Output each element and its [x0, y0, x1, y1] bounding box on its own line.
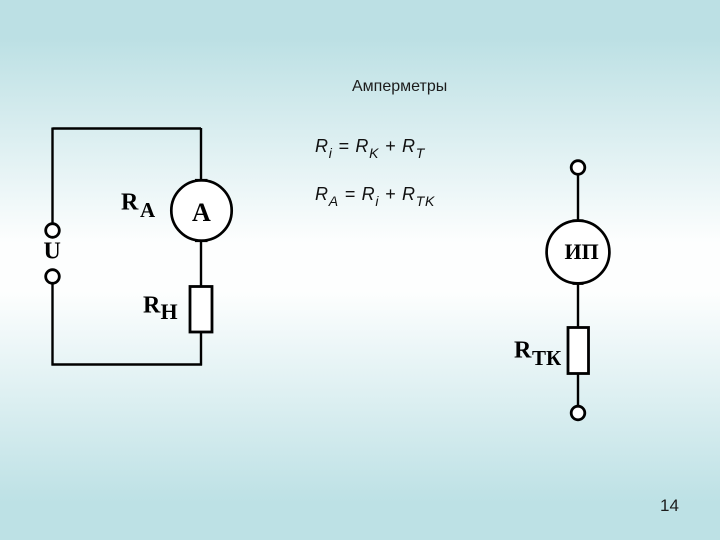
- svg-text:R: R: [514, 338, 532, 364]
- resistor RH: [190, 287, 212, 333]
- wire: bottom horizontal of left loop: [52, 363, 203, 365]
- wire joint flat at ammeter bottom: [195, 239, 208, 242]
- svg-text:А: А: [192, 198, 211, 227]
- wire: between ammeter and resistor: [200, 241, 202, 287]
- wire joint flat at ammeter top: [195, 179, 208, 182]
- terminal top of right branch: [571, 161, 585, 175]
- wire: top terminal to meter: [577, 175, 579, 222]
- wire: resistor RTK to bottom terminal: [577, 374, 579, 407]
- terminal upper of source U: [46, 224, 60, 238]
- wire: left vertical upper (to terminal): [51, 128, 53, 224]
- wire: meter to resistor RTK: [577, 284, 579, 328]
- page number 14: [660, 496, 679, 516]
- title Амперметры: [352, 78, 447, 96]
- meter ИП: [547, 221, 610, 284]
- wire joint flat at meter top: [573, 219, 584, 222]
- terminal lower of source U: [46, 270, 60, 284]
- wire: right vertical lower (resistor to bottom): [200, 332, 202, 366]
- svg-text:R: R: [121, 190, 139, 216]
- wire: ammeter top to top rail: [200, 128, 202, 181]
- resistor RTK: [568, 328, 589, 374]
- svg-text:А: А: [140, 198, 156, 222]
- svg-text:R: R: [143, 293, 161, 319]
- svg-text:ТК: ТК: [532, 346, 562, 370]
- ammeter A: [171, 180, 231, 240]
- wire joint flat at meter bottom: [573, 282, 584, 285]
- formula Ri = RK + RT: [315, 136, 425, 157]
- formula RA = Ri + RTK: [315, 184, 435, 205]
- wire: top horizontal of left loop: [53, 127, 202, 129]
- wire: left vertical lower: [51, 284, 53, 366]
- svg-text:Н: Н: [161, 299, 178, 324]
- terminal bottom of right branch: [571, 406, 585, 420]
- svg-text:U: U: [44, 239, 61, 265]
- svg-text:ИП: ИП: [565, 239, 599, 264]
